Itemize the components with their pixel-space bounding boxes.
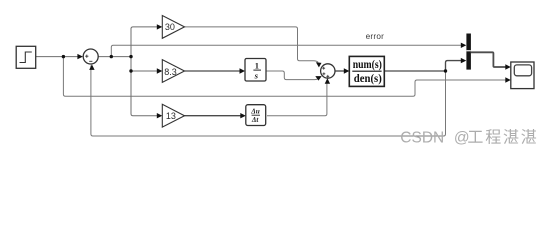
wire gain83 output to integrator: [185, 70, 243, 72]
mux output notch: [466, 50, 471, 52]
derivative block: [246, 105, 266, 126]
wire gain13 output to derivative: [185, 115, 244, 117]
wire error line to mux input 1: [111, 45, 464, 56]
scope block: [511, 62, 534, 89]
sum1 plus sign: [85, 55, 88, 58]
arrowhead into mux input 1: [461, 43, 467, 48]
sum1 minus sign: [89, 60, 92, 62]
wire transfer fcn output to junction: [384, 70, 445, 72]
sum2 plus sign upper: [322, 67, 325, 70]
svg-text:1: 1: [255, 60, 259, 70]
svg-text:den(s): den(s): [354, 73, 382, 85]
arrowhead into integrator: [240, 68, 246, 73]
sum2 plus sign bottom: [326, 75, 329, 78]
derivative fraction bar: [252, 114, 260, 116]
transfer fcn block: [349, 56, 384, 86]
mux block bar: [466, 34, 471, 70]
svg-text:30: 30: [165, 22, 175, 32]
arrowhead into sum1 left: [77, 54, 83, 59]
svg-text:13: 13: [166, 111, 176, 121]
arrowhead into sum2 lower-left: [315, 76, 321, 81]
svg-text:num(s): num(s): [353, 59, 382, 71]
sum2 plus sign lower: [323, 72, 326, 75]
gain block 8.3: [162, 60, 184, 83]
svg-text:8.3: 8.3: [164, 67, 177, 77]
wire feedback from junction down, left, up to sum1 bottom: [91, 66, 446, 137]
wire gain distribution vertical: [131, 27, 160, 116]
svg-text:工程湛湛: 工程湛湛: [467, 129, 536, 147]
arrowhead into mux input 2: [461, 58, 467, 63]
integrator block: [245, 59, 266, 82]
arrowhead into gain30: [157, 24, 163, 29]
gain block 30: [162, 16, 184, 39]
wire junction up to mux input 2: [446, 61, 465, 71]
wire integrator output to sum2 lower-left: [266, 71, 318, 80]
scope screen: [514, 65, 531, 76]
junction dot at step branch: [62, 55, 65, 58]
arrowhead into scope input 2: [505, 77, 511, 82]
step waveform glyph: [20, 52, 32, 63]
wire derivative output to sum2 bottom: [267, 80, 327, 116]
sum1 circle: [83, 49, 98, 64]
wire step branch down and to scope lower input: [63, 57, 508, 97]
wire sum1 output: [99, 56, 132, 58]
junction dot at transfer fcn output: [444, 69, 447, 72]
arrowhead into derivative: [240, 113, 246, 118]
integrator fraction bar: [253, 69, 261, 71]
arrowhead into sum2 upper-left: [316, 62, 322, 67]
svg-text:s: s: [254, 70, 259, 80]
svg-text:CSDN: CSDN: [400, 130, 444, 147]
junction dot at distribution top: [129, 55, 132, 58]
step source block: [16, 46, 36, 68]
wire mux output to scope input 1: [471, 52, 508, 67]
svg-text:Δt: Δt: [251, 116, 260, 124]
arrowhead into sum1 bottom: [89, 64, 94, 70]
arrowhead into gain13: [157, 113, 163, 118]
svg-text:Δu: Δu: [250, 108, 260, 116]
junction dot at error branch: [110, 55, 113, 58]
arrowhead into sum2 bottom: [325, 78, 330, 84]
transfer fcn fraction bar: [352, 70, 381, 72]
wire gain30 output to sum2 upper-left: [185, 27, 319, 62]
arrowhead into scope input 1: [505, 64, 511, 69]
wire step output to sum1: [36, 56, 80, 58]
sum2 circle: [321, 64, 335, 78]
arrowhead into gain83: [157, 68, 163, 73]
svg-text:error: error: [366, 32, 385, 41]
gain block 13: [162, 104, 184, 127]
wire sum2 output to transfer fcn: [335, 70, 347, 72]
arrowhead into transfer fcn: [344, 68, 350, 73]
junction dot at distribution middle: [129, 69, 132, 72]
